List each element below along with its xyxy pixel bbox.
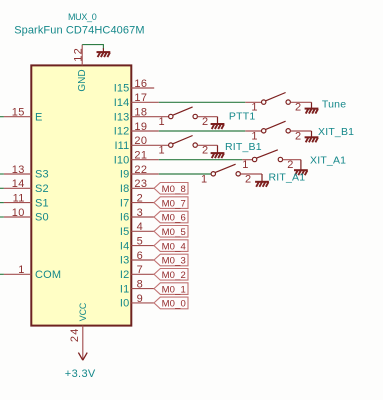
- svg-text:3: 3: [137, 207, 144, 219]
- svg-text:7: 7: [137, 264, 144, 276]
- svg-text:2: 2: [202, 145, 208, 157]
- svg-text:1: 1: [158, 116, 164, 128]
- svg-text:20: 20: [134, 135, 147, 147]
- svg-text:I5: I5: [120, 226, 129, 238]
- svg-text:M0_7: M0_7: [162, 198, 186, 209]
- svg-text:18: 18: [134, 107, 147, 119]
- svg-text:15: 15: [12, 107, 25, 119]
- svg-text:S1: S1: [35, 197, 49, 209]
- svg-text:VCC: VCC: [78, 302, 88, 321]
- svg-text:2: 2: [137, 192, 144, 204]
- svg-text:S3: S3: [35, 169, 49, 181]
- svg-text:MUX_0: MUX_0: [68, 12, 97, 22]
- svg-text:1: 1: [18, 264, 25, 276]
- svg-text:6: 6: [137, 250, 144, 262]
- svg-text:16: 16: [134, 78, 147, 90]
- svg-text:1: 1: [201, 173, 207, 185]
- svg-text:10: 10: [12, 207, 25, 219]
- svg-text:5: 5: [137, 235, 144, 247]
- svg-text:XIT_A1: XIT_A1: [310, 155, 346, 167]
- svg-text:M0_4: M0_4: [162, 241, 186, 252]
- svg-text:SparkFun CD74HC4067M: SparkFun CD74HC4067M: [14, 25, 144, 37]
- svg-text:Tune: Tune: [322, 98, 346, 110]
- svg-text:I7: I7: [120, 197, 129, 209]
- svg-text:21: 21: [134, 150, 147, 162]
- svg-text:2: 2: [295, 102, 301, 114]
- svg-text:I11: I11: [115, 140, 130, 152]
- svg-text:S2: S2: [35, 183, 49, 195]
- svg-text:I3: I3: [120, 255, 129, 267]
- svg-text:9: 9: [137, 293, 144, 305]
- svg-text:XIT_B1: XIT_B1: [318, 126, 354, 138]
- svg-text:M0_5: M0_5: [162, 227, 186, 238]
- svg-text:I2: I2: [120, 269, 129, 281]
- svg-text:M0_1: M0_1: [162, 284, 186, 295]
- svg-text:I4: I4: [120, 240, 129, 252]
- svg-text:12: 12: [72, 47, 84, 62]
- svg-text:I0: I0: [120, 298, 129, 310]
- svg-text:M0_0: M0_0: [162, 299, 186, 310]
- svg-text:RIT_B1: RIT_B1: [225, 141, 262, 153]
- svg-text:I9: I9: [120, 169, 129, 181]
- svg-text:4: 4: [137, 221, 144, 233]
- svg-text:23: 23: [134, 178, 147, 190]
- svg-text:8: 8: [137, 278, 144, 290]
- svg-text:RIT_A1: RIT_A1: [269, 172, 306, 184]
- svg-text:22: 22: [134, 164, 147, 176]
- svg-text:I14: I14: [114, 97, 130, 109]
- svg-text:COM: COM: [35, 269, 61, 281]
- svg-text:17: 17: [134, 92, 147, 104]
- svg-text:M0_3: M0_3: [162, 256, 186, 267]
- svg-text:1: 1: [242, 159, 248, 171]
- svg-text:I1: I1: [120, 283, 129, 295]
- svg-text:2: 2: [295, 130, 301, 142]
- svg-text:13: 13: [12, 164, 25, 176]
- svg-text:I10: I10: [114, 154, 130, 166]
- svg-text:19: 19: [134, 121, 147, 133]
- svg-text:M0_6: M0_6: [162, 213, 186, 224]
- svg-text:1: 1: [158, 145, 164, 157]
- svg-text:GND: GND: [77, 69, 88, 91]
- svg-text:S0: S0: [35, 212, 49, 224]
- svg-text:2: 2: [202, 116, 208, 128]
- svg-text:E: E: [35, 111, 43, 123]
- svg-text:2: 2: [287, 159, 293, 171]
- svg-text:14: 14: [12, 178, 25, 190]
- svg-text:I8: I8: [120, 183, 129, 195]
- svg-text:M0_8: M0_8: [162, 184, 186, 195]
- svg-text:M0_2: M0_2: [162, 270, 186, 281]
- svg-text:I6: I6: [120, 212, 129, 224]
- svg-text:PTT1: PTT1: [229, 111, 255, 123]
- svg-text:24: 24: [69, 327, 81, 342]
- svg-text:I15: I15: [114, 83, 130, 95]
- svg-text:I12: I12: [114, 126, 130, 138]
- svg-text:2: 2: [245, 173, 251, 185]
- svg-text:11: 11: [13, 192, 25, 204]
- svg-text:I13: I13: [114, 111, 130, 123]
- svg-text:+3.3V: +3.3V: [65, 368, 96, 380]
